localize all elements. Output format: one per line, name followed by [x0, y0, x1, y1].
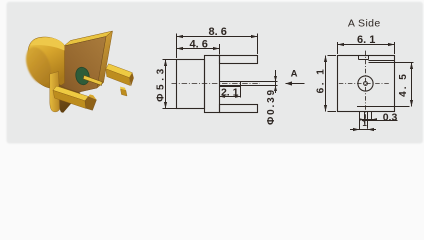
- svg-text:Φ0.39: Φ0.39: [266, 88, 277, 125]
- dim phi5.3: [155, 60, 176, 109]
- svg-text:Φ5.3: Φ5.3: [155, 65, 166, 102]
- dim 6.1 left: [316, 56, 336, 112]
- lower leg: [53, 86, 97, 110]
- svg-text:4. 6: 4. 6: [190, 39, 208, 51]
- barrel lower column bright strip: [50, 72, 60, 112]
- dim phi0.39: [258, 70, 278, 125]
- upper leg: [106, 64, 134, 87]
- section arrow A: [286, 69, 305, 86]
- gray panel background: [7, 2, 424, 144]
- dim 4.5 right: [398, 63, 413, 107]
- svg-text:1: 1: [362, 119, 367, 128]
- top notch: [359, 56, 369, 60]
- pin outline: [220, 82, 258, 86]
- bottom leg outline: [220, 105, 258, 113]
- dim 0.3: [362, 111, 398, 123]
- dim 1: [350, 119, 376, 131]
- center pin: [83, 75, 102, 85]
- bottom legs: [359, 112, 377, 130]
- svg-text:A: A: [291, 69, 298, 80]
- svg-text:8. 6: 8. 6: [209, 26, 227, 38]
- green insulator: [74, 66, 91, 86]
- center line side view: [172, 83, 261, 85]
- barrel outline: [177, 60, 205, 109]
- flange square: [338, 56, 395, 112]
- barrel cylinder cap: [21, 37, 64, 88]
- internal step lines right: [369, 61, 414, 63]
- svg-text:6. 1: 6. 1: [357, 34, 375, 46]
- svg-text:A Side: A Side: [348, 17, 381, 29]
- flange outline: [205, 56, 220, 113]
- svg-text:4. 5: 4. 5: [398, 72, 409, 97]
- dim 4.6: [177, 39, 220, 55]
- svg-text:6. 1: 6. 1: [316, 67, 327, 94]
- flange plate front face: [55, 37, 106, 98]
- dim 6.1 top: [338, 34, 395, 54]
- barrel dark underside wedge: [59, 84, 81, 113]
- title A Side: [348, 17, 381, 29]
- svg-text:2. 1: 2. 1: [221, 86, 239, 98]
- flange plate right face: [97, 31, 113, 88]
- circle interface: [358, 76, 373, 91]
- dim 8.6: [177, 26, 258, 58]
- top leg outline: [220, 56, 258, 64]
- svg-text:0.3: 0.3: [383, 111, 398, 123]
- dim 2.1 boxed: [220, 86, 241, 99]
- crosshair center lines: [339, 51, 390, 121]
- flange plate top face: [64, 31, 113, 46]
- internal bottom line: [357, 106, 410, 108]
- far lower leg tip: [120, 87, 127, 96]
